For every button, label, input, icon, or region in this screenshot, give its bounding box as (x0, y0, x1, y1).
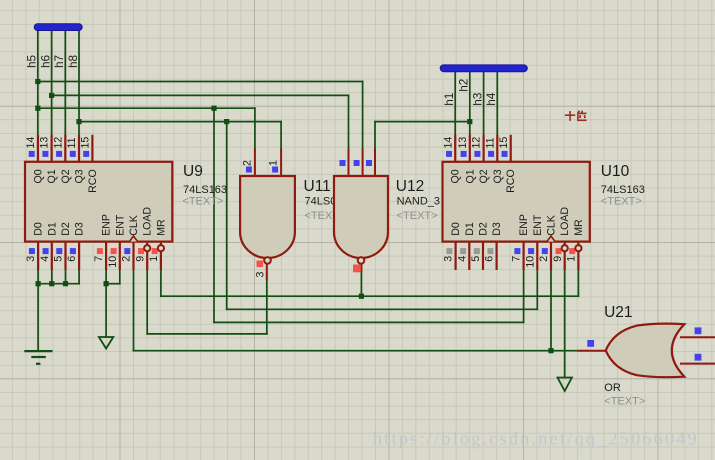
svg-text:Q1: Q1 (46, 169, 58, 183)
svg-text:12: 12 (52, 137, 64, 149)
svg-text:<TEXT>: <TEXT> (397, 210, 438, 222)
svg-text:9: 9 (552, 256, 564, 262)
svg-text:RCO: RCO (87, 169, 99, 193)
svg-text:4: 4 (456, 256, 468, 262)
svg-text:h7: h7 (52, 55, 66, 68)
svg-text:Q3: Q3 (492, 169, 504, 183)
svg-text:D3: D3 (491, 222, 503, 236)
svg-text:5: 5 (470, 256, 482, 262)
svg-text:1: 1 (148, 256, 160, 262)
svg-text:U12: U12 (396, 178, 424, 195)
svg-text:9: 9 (134, 256, 146, 262)
svg-text:11: 11 (66, 137, 78, 148)
svg-text:74LS163: 74LS163 (183, 184, 227, 196)
svg-text:h4: h4 (484, 92, 498, 106)
svg-text:ENP: ENP (101, 214, 113, 236)
svg-text:OR: OR (604, 382, 621, 394)
svg-text:74LS163: 74LS163 (601, 184, 645, 196)
svg-text:15: 15 (498, 137, 510, 149)
svg-text:5: 5 (53, 256, 65, 262)
svg-text:https://blog.csdn.net/qq_25066: https://blog.csdn.net/qq_25066049 (373, 429, 699, 449)
svg-text:10: 10 (524, 256, 536, 268)
svg-text:<TEXT>: <TEXT> (182, 196, 223, 208)
svg-text:6: 6 (66, 256, 78, 262)
svg-text:<TEXT>: <TEXT> (604, 396, 645, 408)
svg-text:ENT: ENT (114, 214, 126, 236)
svg-text:LOAD: LOAD (559, 207, 571, 236)
svg-text:D0: D0 (450, 222, 462, 236)
svg-text:D3: D3 (74, 222, 86, 236)
svg-text:1: 1 (268, 160, 280, 166)
svg-text:Q3: Q3 (74, 169, 86, 183)
svg-text:NAND_3: NAND_3 (397, 195, 440, 207)
svg-text:11: 11 (484, 137, 496, 148)
svg-text:14: 14 (25, 137, 37, 149)
svg-text:h3: h3 (470, 92, 484, 106)
svg-text:7: 7 (93, 256, 105, 262)
svg-text:CLK: CLK (128, 215, 140, 236)
svg-text:h6: h6 (38, 54, 52, 68)
svg-text:U11: U11 (304, 178, 331, 195)
svg-text:13: 13 (39, 137, 51, 149)
svg-text:CLK: CLK (546, 215, 558, 236)
svg-text:h8: h8 (66, 54, 80, 68)
svg-text:LOAD: LOAD (142, 207, 154, 236)
svg-text:14: 14 (442, 137, 454, 149)
svg-text:MR: MR (155, 219, 167, 236)
svg-text:3: 3 (443, 256, 455, 262)
svg-text:h1: h1 (442, 93, 456, 106)
svg-text:D2: D2 (60, 222, 72, 236)
svg-text:12: 12 (471, 137, 483, 149)
svg-text:D1: D1 (464, 222, 476, 236)
svg-text:ENP: ENP (518, 214, 530, 236)
svg-text:Q0: Q0 (32, 169, 44, 183)
svg-text:U9: U9 (183, 163, 203, 180)
svg-text:2: 2 (121, 256, 133, 262)
svg-text:Q1: Q1 (464, 169, 476, 183)
svg-text:13: 13 (457, 137, 469, 149)
svg-text:h2: h2 (457, 79, 471, 92)
svg-text:6: 6 (484, 256, 496, 262)
svg-text:3: 3 (25, 256, 37, 262)
svg-text:D2: D2 (478, 222, 490, 236)
svg-text:2: 2 (538, 256, 550, 262)
svg-text:U21: U21 (604, 304, 632, 321)
svg-text:h5: h5 (25, 54, 39, 68)
svg-text:ENT: ENT (532, 214, 544, 236)
svg-text:7: 7 (511, 256, 523, 262)
svg-text:U10: U10 (601, 163, 630, 180)
svg-text:1: 1 (566, 256, 578, 262)
svg-text:15: 15 (80, 137, 92, 149)
svg-text:4: 4 (39, 256, 51, 262)
svg-text:D0: D0 (33, 222, 45, 236)
svg-text:<TEXT>: <TEXT> (601, 196, 642, 208)
svg-text:Q2: Q2 (60, 169, 72, 183)
svg-text:RCO: RCO (505, 169, 517, 193)
svg-text:2: 2 (241, 160, 253, 166)
svg-text:10: 10 (107, 256, 119, 268)
svg-text:Q0: Q0 (450, 169, 462, 183)
svg-text:Q2: Q2 (478, 169, 490, 183)
svg-text:3: 3 (255, 272, 267, 278)
svg-text:D1: D1 (46, 222, 58, 236)
svg-text:MR: MR (573, 219, 585, 236)
